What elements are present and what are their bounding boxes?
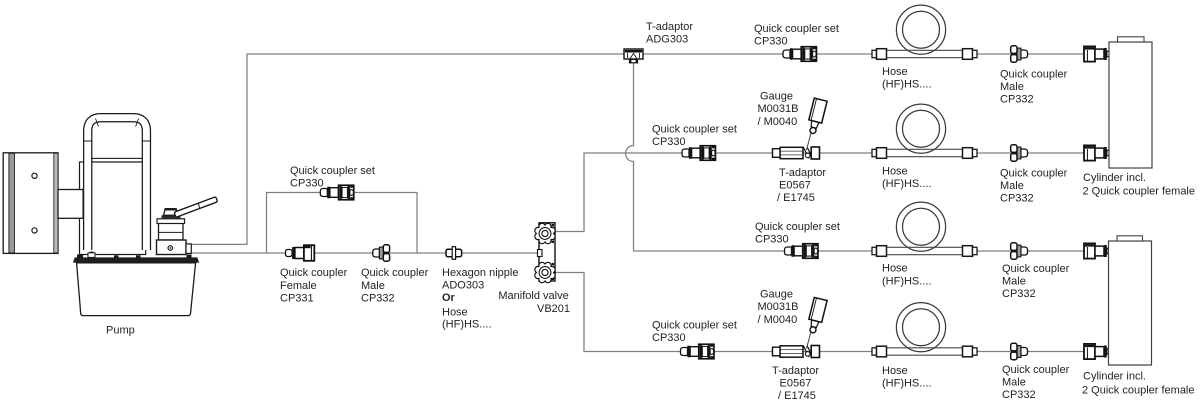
svg-text:CP332: CP332 <box>1002 288 1036 300</box>
quick coupler set CP330 (line 2) <box>682 146 716 161</box>
quick coupler set CP330 (line 4) <box>681 344 715 359</box>
label: Quick coupler set CP330 (line 1) <box>754 23 839 48</box>
svg-text:E0567: E0567 <box>779 179 811 191</box>
quick coupler male CP332 (line 2) <box>1011 145 1028 161</box>
svg-text:(HF)HS....: (HF)HS.... <box>882 178 932 190</box>
svg-text:Quick coupler: Quick coupler <box>1002 263 1070 275</box>
label: Gauge M0031B / M0040 (line 2) <box>758 91 799 128</box>
svg-text:Quick coupler set: Quick coupler set <box>755 221 840 233</box>
svg-text:Hose: Hose <box>882 263 908 275</box>
svg-text:CP332: CP332 <box>1000 94 1034 106</box>
svg-text:Quick coupler: Quick coupler <box>1000 69 1068 81</box>
cylinder 1 female port coupler (top) <box>1084 46 1112 61</box>
svg-text:(HF)HS....: (HF)HS.... <box>882 79 932 91</box>
pump release valve block <box>157 209 192 255</box>
svg-text:2 Quick coupler female: 2 Quick coupler female <box>1082 384 1195 396</box>
svg-text:/ E1745: / E1745 <box>777 192 815 204</box>
svg-text:Cylinder incl.: Cylinder incl. <box>1083 172 1146 184</box>
svg-text:Quick coupler: Quick coupler <box>1002 364 1070 376</box>
hose (line 3) <box>872 202 977 256</box>
svg-text:(HF)HS....: (HF)HS.... <box>882 377 932 389</box>
svg-text:CP332: CP332 <box>1000 193 1034 205</box>
label: Hexagon nipple ADO303 Or Hose (HF)HS.... <box>442 267 518 331</box>
hose (line 1) <box>872 5 977 59</box>
gauge M0031B (line 4) <box>806 297 827 348</box>
manifold valve VB201 <box>535 223 555 283</box>
svg-text:Male: Male <box>361 280 385 292</box>
svg-text:Quick coupler set: Quick coupler set <box>290 165 375 177</box>
wire: pump lower port main line to manifold valve <box>191 252 539 254</box>
label: Gauge M0031B / M0040 (line 4) <box>758 288 799 325</box>
pump valve lever <box>174 197 218 218</box>
svg-text:Cylinder incl.: Cylinder incl. <box>1083 371 1146 383</box>
hexagon nipple ADO303 <box>446 247 462 260</box>
svg-text:CP331: CP331 <box>280 293 314 305</box>
cylinder 2 female port coupler (bottom) <box>1084 344 1112 359</box>
quick coupler set CP330 (line 1) <box>783 47 817 62</box>
label: Cylinder incl. 2 Quick coupler female (cylinder 1) <box>1083 172 1196 198</box>
svg-text:CP332: CP332 <box>1002 389 1036 401</box>
label: Quick coupler Female CP331 <box>280 267 348 305</box>
svg-text:Quick coupler: Quick coupler <box>361 267 429 279</box>
cylinder 2 <box>1109 236 1152 365</box>
label: Quick coupler set CP330 (loop) <box>290 165 375 190</box>
svg-text:(HF)HS....: (HF)HS.... <box>442 319 492 331</box>
svg-text:Hose: Hose <box>882 66 908 78</box>
svg-text:M0031B: M0031B <box>758 301 799 313</box>
svg-text:Quick coupler set: Quick coupler set <box>652 124 737 136</box>
svg-text:Male: Male <box>1000 180 1024 192</box>
gauge M0031B (line 2) <box>806 98 827 150</box>
quick coupler male CP332 (line 3) <box>1011 243 1028 259</box>
svg-text:M0031B: M0031B <box>758 103 799 115</box>
svg-text:T-adaptor: T-adaptor <box>646 21 693 33</box>
svg-text:(HF)HS....: (HF)HS.... <box>882 275 932 287</box>
wire: manifold top port to line 2 and across to cylinder 1 bottom <box>555 153 1084 232</box>
svg-text:Quick coupler set: Quick coupler set <box>754 23 839 35</box>
svg-text:ADO303: ADO303 <box>442 279 484 291</box>
quick coupler male CP332 (line 4) <box>1011 343 1028 359</box>
label: Quick coupler set CP330 (line 2) <box>652 124 737 149</box>
svg-text:Quick coupler set: Quick coupler set <box>652 319 737 331</box>
pump handle <box>83 118 151 250</box>
label: Quick coupler set CP330 (line 3) <box>755 221 840 246</box>
pump reservoir tank <box>73 252 199 316</box>
cylinder 1 <box>1109 37 1152 168</box>
label: Quick coupler set CP330 (line 4) <box>652 319 737 344</box>
label: Manifold valve VB201 <box>498 290 570 315</box>
wire: bypass loop for quick coupler set CP330 <box>267 193 418 254</box>
hose (line 2) <box>872 104 977 158</box>
cylinder 1 female port coupler (bottom) <box>1084 145 1112 160</box>
svg-text:Gauge: Gauge <box>760 288 793 300</box>
pump motor bracket panel <box>3 153 58 254</box>
svg-text:CP330: CP330 <box>755 234 789 246</box>
svg-text:/ M0040: / M0040 <box>758 116 798 128</box>
svg-text:E0567: E0567 <box>780 377 812 389</box>
svg-text:Hexagon nipple: Hexagon nipple <box>442 267 518 279</box>
svg-text:Male: Male <box>1000 81 1024 93</box>
svg-text:Male: Male <box>1002 276 1026 288</box>
label: Quick coupler Male CP332 (line 4) <box>1002 364 1070 401</box>
label: Quick coupler Male CP332 (main line) <box>361 267 429 305</box>
svg-text:CP330: CP330 <box>754 36 788 48</box>
cylinder 2 female port coupler (top) <box>1084 243 1112 258</box>
svg-text:Manifold valve: Manifold valve <box>498 290 568 302</box>
label: Cylinder incl. 2 Quick coupler female (cylinder 2) <box>1082 371 1195 397</box>
svg-text:2 Quick coupler female: 2 Quick coupler female <box>1083 186 1196 198</box>
label: T-adaptor E0567 / E1745 (line 4) <box>772 365 819 402</box>
svg-text:Gauge: Gauge <box>760 91 793 103</box>
label: Hose (HF)HS.... (line 3) <box>882 263 932 288</box>
svg-text:Quick coupler: Quick coupler <box>1000 168 1068 180</box>
quick coupler set CP330 (bypass loop) <box>320 185 354 200</box>
svg-text:Quick coupler: Quick coupler <box>280 267 348 279</box>
label: Hose (HF)HS.... (line 1) <box>882 66 932 91</box>
svg-text:Female: Female <box>280 280 317 292</box>
label: Quick coupler Male CP332 (line 3) <box>1002 263 1070 300</box>
svg-text:VB201: VB201 <box>537 303 570 315</box>
T-adaptor E0567 (line 4) <box>773 346 820 358</box>
hose (line 4) <box>872 303 977 357</box>
svg-text:Hose: Hose <box>882 365 908 377</box>
wire: pump upper port to line 1 and across to cylinder 1 top <box>191 54 1084 244</box>
svg-text:CP330: CP330 <box>652 136 686 148</box>
label: Quick coupler Male CP332 (line 1) <box>1000 69 1068 106</box>
label: T-adaptor ADG303 <box>646 21 693 46</box>
svg-text:Hose: Hose <box>442 307 468 319</box>
quick coupler set CP330 (line 3) <box>785 244 819 259</box>
svg-text:Male: Male <box>1002 376 1026 388</box>
svg-text:ADG303: ADG303 <box>646 34 688 46</box>
quick coupler female CP331 <box>286 245 315 261</box>
svg-text:CP332: CP332 <box>361 293 395 305</box>
svg-text:/ M0040: / M0040 <box>758 314 798 326</box>
quick coupler male CP332 (line 1) <box>1011 46 1028 62</box>
svg-text:T-adaptor: T-adaptor <box>772 365 819 377</box>
T-adaptor E0567 (line 2) <box>773 147 820 159</box>
svg-text:Hose: Hose <box>882 166 908 178</box>
wire: manifold bottom port to line 4 and across to cylinder 2 bottom <box>555 273 1084 352</box>
svg-text:CP330: CP330 <box>652 332 686 344</box>
svg-text:CP330: CP330 <box>290 178 324 190</box>
pump motor body <box>80 158 146 254</box>
label: T-adaptor E0567 / E1745 (line 2) <box>777 167 826 204</box>
pump head box <box>58 190 83 219</box>
wire: T-adaptor ADG303 down to line 3 (with hop over line 2) and across to cylinder 2 top <box>626 62 1085 251</box>
T-adaptor ADG303 <box>624 49 643 63</box>
svg-text:T-adaptor: T-adaptor <box>779 167 826 179</box>
svg-text:Pump: Pump <box>106 325 135 337</box>
label: Hose (HF)HS.... (line 2) <box>882 166 932 191</box>
label: Hose (HF)HS.... (line 4) <box>882 365 932 390</box>
svg-text:Or: Or <box>442 292 456 304</box>
quick coupler male CP332 (main line) <box>373 245 390 261</box>
label: Quick coupler Male CP332 (line 2) <box>1000 168 1068 205</box>
svg-text:/ E1745: / E1745 <box>778 390 816 402</box>
